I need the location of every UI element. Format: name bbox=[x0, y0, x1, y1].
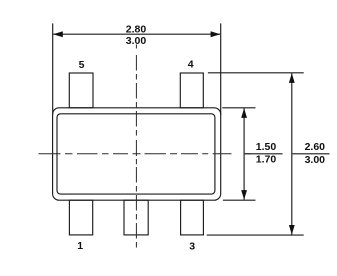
svg-text:1.50: 1.50 bbox=[256, 141, 277, 153]
vertical centerline bbox=[135, 45, 137, 250]
svg-text:3.00: 3.00 bbox=[305, 154, 326, 166]
arrow down (1.50/1.70) bbox=[241, 190, 247, 200]
arrow right (2.80/3.00) bbox=[211, 31, 221, 37]
svg-text:2.60: 2.60 bbox=[305, 141, 326, 153]
dimension line 1.50/1.70 vertical bbox=[243, 108, 245, 199]
svg-text:2.80: 2.80 bbox=[126, 23, 147, 35]
svg-text:5: 5 bbox=[79, 59, 85, 71]
pin 4 (top-right lead) bbox=[180, 73, 203, 108]
arrow up (1.50/1.70) bbox=[241, 108, 247, 118]
svg-text:1.70: 1.70 bbox=[256, 154, 277, 166]
fraction bar 2.60/3.00 bbox=[292, 153, 329, 155]
horizontal centerline bbox=[39, 153, 251, 155]
dimension line 2.80/3.00 horizontal bbox=[53, 33, 220, 35]
arrow up (2.60/3.00) bbox=[289, 73, 295, 83]
pin 2 (bottom-middle lead) bbox=[124, 200, 148, 235]
svg-text:3: 3 bbox=[189, 240, 195, 252]
extension line pin bottom (2.60/3.00) bbox=[207, 234, 304, 236]
arrow down (2.60/3.00) bbox=[289, 225, 295, 235]
pin 5 (top-left lead) bbox=[69, 73, 93, 108]
svg-text:1: 1 bbox=[77, 240, 83, 252]
svg-text:4: 4 bbox=[188, 58, 194, 70]
pin 3 (bottom-right lead) bbox=[181, 200, 204, 235]
extension line left (body width dim) bbox=[52, 23, 54, 114]
extension line right (body width dim) bbox=[220, 23, 222, 114]
arrow left (2.80/3.00) bbox=[53, 31, 63, 37]
package body outer outline bbox=[53, 108, 221, 200]
svg-text:3.00: 3.00 bbox=[126, 35, 147, 47]
extension line pin top (2.60/3.00) bbox=[208, 72, 304, 74]
pin 1 (bottom-left lead) bbox=[69, 200, 92, 235]
dimension line 2.60/3.00 vertical bbox=[291, 73, 293, 234]
fraction bar 1.50/1.70 bbox=[245, 153, 283, 155]
package body inner outline bbox=[57, 114, 215, 194]
extension line body bottom right (1.50/1.70) bbox=[223, 199, 256, 201]
extension line body top right (1.50/1.70) bbox=[222, 107, 255, 109]
